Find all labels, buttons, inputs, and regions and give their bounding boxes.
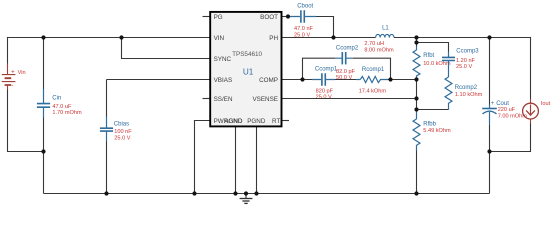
wire BOOT stub <box>281 16 289 18</box>
wire Vin return jog <box>8 90 44 152</box>
wire COMP <box>281 79 313 81</box>
node output <box>414 35 418 39</box>
wire output node <box>394 37 531 39</box>
wire Ccomp2 loop <box>303 58 336 79</box>
wire Iout return <box>490 124 531 152</box>
svg-text:Cbias: Cbias <box>114 122 129 128</box>
svg-text:Vin: Vin <box>18 70 26 76</box>
resistor Rfbb <box>413 110 451 151</box>
capacitor Cin <box>37 89 82 118</box>
capacitor Ccomp1 <box>312 67 338 101</box>
pin stub RT <box>281 120 290 122</box>
wire VSENSE <box>281 98 417 100</box>
svg-text:+: + <box>491 101 495 107</box>
capacitor Ccomp2 <box>335 46 359 81</box>
svg-text:SYNC: SYNC <box>214 56 232 63</box>
wire Rcomp2 return <box>417 109 449 111</box>
wire return to rail <box>489 152 491 194</box>
svg-text:1.70 mOhm: 1.70 mOhm <box>52 110 82 116</box>
svg-text:47.0 uF: 47.0 uF <box>52 104 72 110</box>
node Cin top <box>41 35 45 39</box>
svg-text:25.0 V: 25.0 V <box>316 95 332 101</box>
node SYNC tap <box>119 35 123 39</box>
wire Rcomp1 to node <box>388 79 417 81</box>
voltage source Vin <box>2 64 26 91</box>
wire Cout to return node <box>489 124 491 151</box>
wire PGND <box>256 126 258 193</box>
node PWRGND rail <box>192 191 196 195</box>
node Cbias rail <box>104 191 108 195</box>
resistor Rfbt <box>413 47 451 80</box>
svg-text:5.49 kOhm: 5.49 kOhm <box>423 128 451 134</box>
svg-text:Cout: Cout <box>496 101 509 107</box>
wire Cout branch <box>489 38 491 105</box>
wire AGND <box>235 126 237 193</box>
svg-text:+: + <box>11 68 15 75</box>
resistor Rcomp2 <box>445 71 483 110</box>
wire Cbias to rail <box>106 141 108 194</box>
svg-text:220 uF: 220 uF <box>498 107 516 113</box>
svg-text:BOOT: BOOT <box>260 14 278 21</box>
wire PWRGND <box>195 121 212 194</box>
inductor L1 <box>364 26 394 54</box>
svg-text:COMP: COMP <box>259 77 278 84</box>
svg-text:Rfbt: Rfbt <box>423 53 434 59</box>
svg-text:VBIAS: VBIAS <box>214 77 233 84</box>
capacitor Cboot <box>288 4 316 39</box>
ground <box>240 194 253 204</box>
svg-text:17.4 kOhm: 17.4 kOhm <box>359 88 387 94</box>
node comp/feedback <box>414 77 418 81</box>
svg-text:VIN: VIN <box>214 35 225 42</box>
wire Cboot to PH <box>316 17 334 38</box>
svg-text:AGND: AGND <box>224 118 243 125</box>
svg-text:100 nF: 100 nF <box>114 129 132 135</box>
svg-text:10.0 kOhm: 10.0 kOhm <box>423 61 451 67</box>
svg-text:Rfbb: Rfbb <box>423 122 436 128</box>
capacitor Cbias <box>100 117 132 142</box>
svg-text:L1: L1 <box>382 26 389 32</box>
svg-text:25.0 V: 25.0 V <box>114 136 130 142</box>
svg-text:820 pF: 820 pF <box>316 88 334 94</box>
svg-text:Ccomp1: Ccomp1 <box>315 67 338 73</box>
node AGND rail <box>233 191 237 195</box>
svg-text:RT: RT <box>272 118 280 125</box>
svg-text:-: - <box>11 82 13 89</box>
wire left drop to Vin source <box>7 37 9 64</box>
svg-text:PH: PH <box>269 35 278 42</box>
capacitor Ccomp3 <box>442 49 479 71</box>
svg-text:SS/EN: SS/EN <box>214 96 233 103</box>
node COMP <box>300 77 304 81</box>
svg-text:8.00 mOhm: 8.00 mOhm <box>364 47 394 53</box>
svg-text:1.20 nF: 1.20 nF <box>456 58 476 64</box>
current source Iout <box>523 99 551 123</box>
resistor Rcomp1 <box>356 67 388 94</box>
node Rcomp2 return <box>414 107 418 111</box>
svg-text:47.0 nF: 47.0 nF <box>294 26 314 32</box>
node Vin return <box>41 149 45 153</box>
svg-text:Rcomp2: Rcomp2 <box>455 85 478 91</box>
wire Cin branch <box>43 38 45 90</box>
wire Iout drop <box>530 37 532 99</box>
node Cout/Iout return <box>487 149 491 153</box>
pin stub PG <box>203 16 212 18</box>
node feedforward <box>414 40 418 44</box>
wire SYNC jog <box>122 38 212 59</box>
node Rfbb rail <box>414 191 418 195</box>
node ground tap <box>244 191 248 195</box>
capacitor Cout <box>482 101 527 124</box>
svg-text:PGND: PGND <box>247 118 266 125</box>
op-amp U1 TPS54610 IC body <box>210 12 281 127</box>
svg-text:TPS54610: TPS54610 <box>232 51 262 58</box>
wire bottom ground rail <box>44 193 490 195</box>
wire Rfbb to rail <box>416 151 418 194</box>
svg-text:U1: U1 <box>243 68 254 77</box>
node VSENSE <box>414 96 418 100</box>
svg-text:Iout: Iout <box>541 101 551 107</box>
svg-text:50.0 V: 50.0 V <box>336 75 352 81</box>
wire output to feedback <box>416 38 418 47</box>
svg-text:25.0 V: 25.0 V <box>456 64 472 70</box>
svg-text:Cboot: Cboot <box>297 4 313 10</box>
wire feedback vertical <box>416 80 418 111</box>
svg-text:PG: PG <box>214 14 223 21</box>
wire PH <box>281 37 376 39</box>
node comp right <box>388 77 392 81</box>
wire VIN top rail <box>8 37 212 39</box>
wire VBIAS to Cbias <box>107 79 212 81</box>
node BOOT <box>286 14 290 18</box>
svg-text:1.10 kOhm: 1.10 kOhm <box>455 92 483 98</box>
svg-text:Cin: Cin <box>52 96 61 102</box>
svg-text:Ccomp3: Ccomp3 <box>456 49 479 55</box>
svg-text:Rcomp1: Rcomp1 <box>362 67 385 73</box>
svg-text:2.70 uH: 2.70 uH <box>364 41 384 47</box>
svg-text:Ccomp2: Ccomp2 <box>336 46 359 52</box>
svg-text:VSENSE: VSENSE <box>252 96 278 103</box>
pin stub SS/EN <box>203 98 212 100</box>
node Cboot/PH <box>331 35 335 39</box>
node Cout tap <box>487 35 491 39</box>
wire feedforward branch <box>417 43 449 52</box>
wire Ccomp1 to Rcomp1 <box>335 79 356 81</box>
node PGND rail <box>254 191 258 195</box>
